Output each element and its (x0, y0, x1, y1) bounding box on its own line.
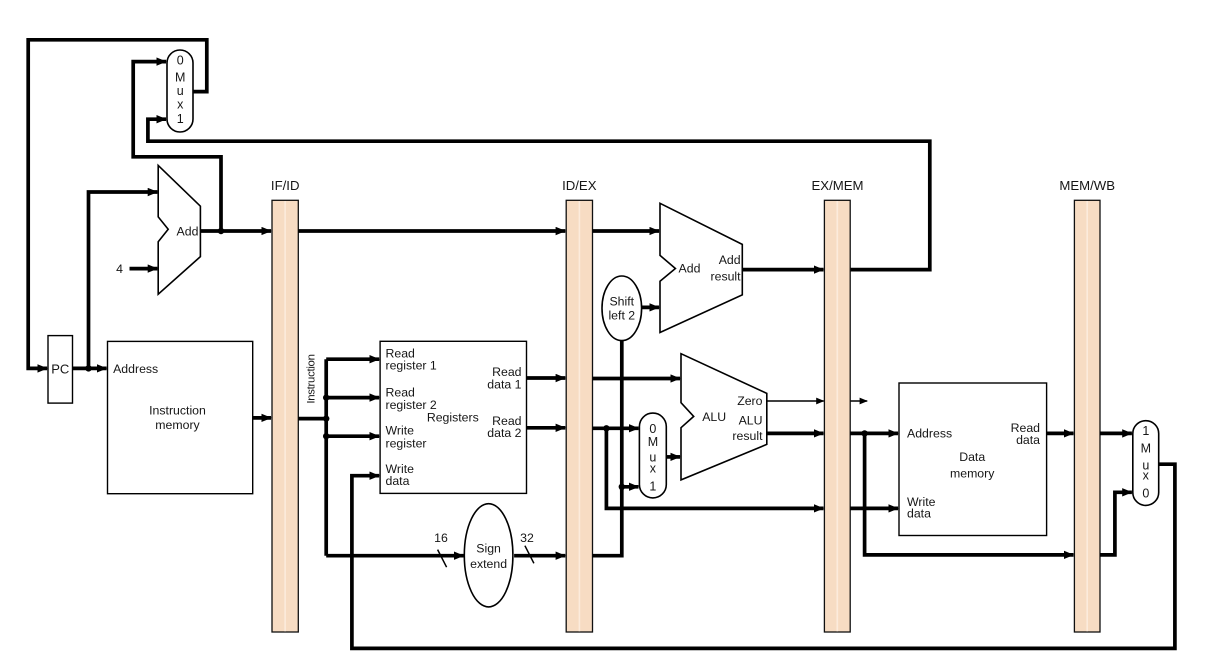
wire: branch mux output to PC input (28, 40, 207, 369)
wire: ALUSrc mux to ALU input (666, 455, 680, 459)
registers block (380, 341, 526, 493)
svg-text:0: 0 (1142, 486, 1149, 500)
svg-text:ID/EX: ID/EX (562, 178, 597, 193)
wire: EX/MEM ALU result to data memory address (850, 432, 898, 436)
pipeline register ID/EX (562, 178, 597, 632)
svg-text:IF/ID: IF/ID (271, 178, 300, 193)
register PC (48, 336, 73, 404)
wire: zero stub after EX/MEM (thin) (850, 400, 867, 402)
svg-text:Shift: Shift (609, 294, 634, 308)
svg-text:u: u (177, 84, 184, 98)
svg-text:data: data (1016, 433, 1040, 447)
junction: ALU result tap (861, 430, 867, 436)
wire: instruction to read register 1 (326, 357, 379, 361)
svg-text:data: data (907, 507, 931, 521)
svg-text:memory: memory (155, 418, 200, 432)
svg-text:1: 1 (1142, 424, 1149, 438)
svg-text:M: M (648, 435, 658, 449)
wire: PC to instruction memory address (73, 367, 107, 371)
svg-text:result: result (711, 269, 742, 283)
svg-text:Registers: Registers (427, 411, 479, 425)
svg-text:Sign: Sign (476, 541, 501, 555)
junction: instruction bus at IF/ID output (323, 415, 329, 421)
svg-text:Add: Add (177, 224, 199, 238)
svg-text:x: x (177, 98, 184, 112)
wire: instruction memory output to IF/ID (253, 416, 271, 420)
svg-text:data: data (386, 474, 410, 488)
svg-text:x: x (650, 461, 657, 475)
wire: read data 2 to ID/EX (527, 426, 566, 430)
wire: instruction to write register (326, 434, 379, 438)
wire: read data 2 down and under ALU to EX/MEM (store data) (606, 428, 823, 508)
mux U6 MemtoReg (1 Mux 0) (1133, 421, 1159, 506)
shift left 2 unit (602, 276, 642, 341)
wire: branch adder result to EX/MEM (742, 268, 823, 272)
wire: MEM/WB ALU result to WB mux input 0 (1100, 492, 1132, 555)
wire: ALU result bypass down to MEM/WB (865, 433, 1074, 555)
svg-text:0: 0 (649, 422, 656, 436)
constant 4 input to adder (116, 262, 157, 276)
wire: ID/EX PC+4 to branch adder (593, 229, 660, 233)
pipeline register IF/ID (271, 178, 300, 632)
wire: IF/ID PC+4 to ID/EX (298, 229, 565, 233)
wire: ID/EX sign-extended up to shift left 2 and ALUSrc mux input 1 (593, 341, 622, 556)
wire: ALU zero to EX/MEM (thin) (767, 400, 824, 402)
svg-text:memory: memory (950, 467, 995, 481)
svg-text:1: 1 (177, 112, 184, 126)
junction: write register tap (323, 433, 329, 439)
svg-text:EX/MEM: EX/MEM (811, 178, 863, 193)
junction: shift feed to mux tap (619, 484, 625, 490)
wire: MEM/WB read data to WB mux input 1 (1100, 432, 1132, 436)
wire: shift left 2 to branch adder (642, 306, 660, 310)
svg-text:M: M (1141, 441, 1151, 455)
svg-text:register: register (386, 436, 427, 450)
svg-text:4: 4 (116, 262, 123, 276)
pipeline register MEM/WB (1059, 178, 1115, 632)
svg-text:MEM/WB: MEM/WB (1059, 178, 1115, 193)
svg-text:PC: PC (51, 362, 69, 377)
wire: sign extend output to ID/EX (514, 554, 565, 558)
junction: read data 2 tap (603, 425, 609, 431)
junction: PC output (85, 365, 91, 371)
wire: read data 1 to ID/EX (527, 376, 566, 380)
svg-text:ALU: ALU (702, 410, 726, 424)
bus width mark 32 (520, 531, 534, 564)
mux U1 PCSrc (0 Mux 1) (167, 50, 193, 132)
svg-text:result: result (732, 429, 763, 443)
svg-text:data 2: data 2 (487, 426, 521, 440)
svg-text:Address: Address (113, 362, 158, 376)
svg-text:0: 0 (177, 54, 184, 68)
adder U3 (branch Add) (660, 203, 742, 332)
svg-text:Add: Add (719, 253, 741, 267)
wire: EX/MEM store data to data memory write data (850, 507, 898, 511)
adder U2 (PC+4 Add) (158, 165, 200, 294)
wire: data memory read data to MEM/WB (1047, 432, 1074, 436)
svg-text:Data: Data (959, 450, 985, 464)
bus width mark 16 (434, 531, 448, 567)
svg-text:Instruction: Instruction (149, 404, 206, 418)
svg-text:32: 32 (520, 531, 534, 545)
mux U4 ALUSrc (0 Mux 1) (639, 413, 666, 498)
pipeline register EX/MEM (811, 178, 863, 632)
svg-text:1: 1 (649, 479, 656, 493)
svg-text:x: x (1143, 469, 1150, 483)
wire: instruction bus trunk from IF/ID (298, 417, 326, 421)
svg-text:left 2: left 2 (608, 309, 635, 323)
wire: instruction to read register 2 (326, 396, 379, 400)
svg-text:ALU: ALU (739, 413, 763, 427)
wire: ALU result to EX/MEM (767, 432, 824, 436)
data memory block (899, 383, 1047, 536)
svg-text:extend: extend (470, 557, 507, 571)
svg-text:data 1: data 1 (487, 377, 521, 391)
wire: PC output up to PC+4 adder input (89, 192, 158, 368)
svg-text:16: 16 (434, 531, 448, 545)
instruction memory block (108, 341, 253, 493)
svg-text:Instruction: Instruction (306, 354, 318, 403)
svg-text:Address: Address (907, 426, 952, 440)
wire: instruction 15-0 to sign extend (326, 554, 463, 558)
junction: read register 2 tap (323, 394, 329, 400)
svg-text:register 1: register 1 (386, 359, 437, 373)
svg-text:Zero: Zero (737, 394, 762, 408)
sign extend unit (464, 504, 513, 607)
wire: branch target from EX/MEM to PCSrc mux input 1 (148, 119, 930, 269)
svg-text:Add: Add (679, 261, 701, 275)
wire: PC+4 adder output to IF/ID (200, 229, 271, 233)
wire: write-back mux output to registers write data (352, 464, 1175, 648)
svg-text:M: M (175, 71, 185, 85)
wire: PC+4 adder output branch up to PCSrc mux input 0 (133, 62, 221, 231)
ALU U5 (681, 354, 767, 480)
wire: ID/EX read data 1 to ALU (593, 377, 681, 381)
wire: ID/EX read data 2 to ALUSrc mux input 0 (593, 426, 639, 430)
junction: adder output branch (218, 228, 224, 234)
